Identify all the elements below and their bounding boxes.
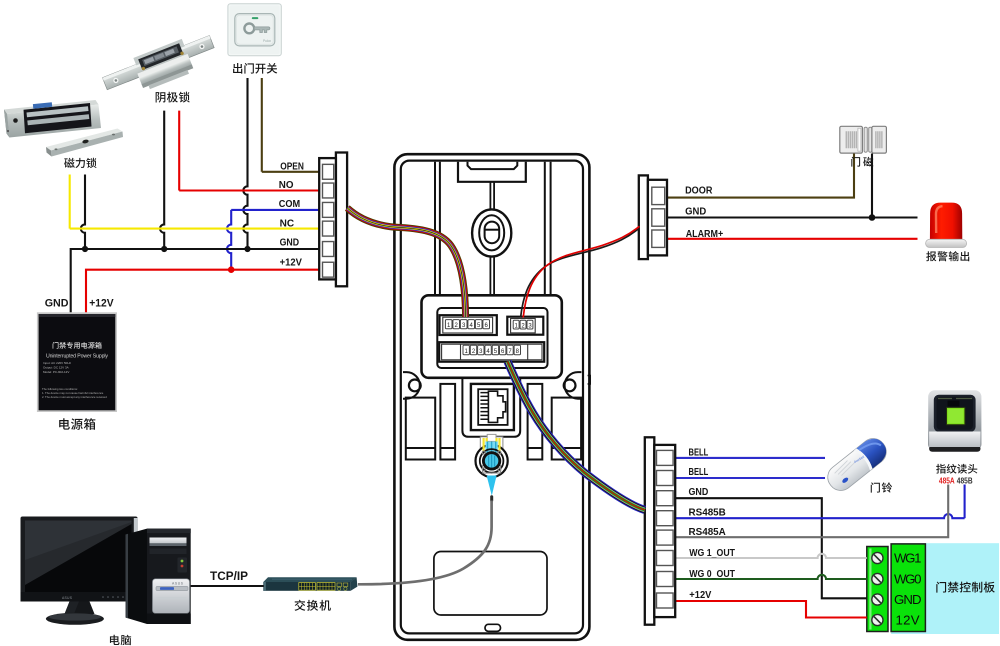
electric strike 阴极锁 (100, 29, 220, 104)
left terminal block body (319, 158, 336, 279)
cable tip (490, 495, 493, 502)
label 门磁 (851, 157, 873, 167)
wire strike black to GND (160, 111, 164, 249)
wire OPEN (262, 171, 320, 173)
wire GND (71, 249, 320, 312)
wire exit button black to GND (243, 78, 247, 249)
svg-text:ALARM+: ALARM+ (686, 229, 724, 240)
right 8-terminal body (654, 445, 675, 617)
maglock body 磁力锁 (4, 100, 101, 138)
computer tower (126, 529, 191, 624)
svg-text:ASUS: ASUS (172, 582, 184, 586)
svg-text:WG0: WG0 (894, 572, 922, 587)
svg-text:DOOR: DOOR (685, 185, 713, 196)
label 交换机 (295, 600, 331, 611)
label 阴极锁 (156, 92, 190, 103)
terminal compartment (422, 295, 562, 378)
svg-text:485A: 485A (939, 475, 955, 485)
svg-text:GND: GND (685, 207, 706, 218)
wire COM vertical to +12V (227, 210, 231, 270)
wire +12V to control board (675, 601, 866, 618)
svg-text:NC: NC (280, 218, 295, 229)
wire GND right-top (667, 154, 918, 218)
panel rib right (545, 162, 551, 296)
left screw boss (403, 372, 421, 399)
wire +12V (86, 270, 320, 313)
6-pin connector J1 (440, 315, 497, 335)
bottom slot (485, 624, 501, 631)
wire GND to control board (675, 498, 866, 598)
harness J3 to 8-terminal block (508, 362, 645, 511)
junction strike GND (161, 246, 167, 252)
maglock armature plate (46, 129, 123, 157)
left terminal block backplate (336, 153, 347, 287)
doorbell 门铃 (823, 433, 892, 495)
svg-text:Input: AC 220V 50Hz: Input: AC 220V 50Hz (43, 361, 72, 365)
svg-text:+12V: +12V (89, 298, 114, 310)
svg-text:NO: NO (279, 180, 294, 191)
light cone (487, 476, 497, 496)
svg-text:Uninterrupted Power Supply: Uninterrupted Power Supply (46, 354, 108, 360)
top mounting tab (458, 162, 526, 182)
label 出门开关 (233, 63, 277, 74)
panel rib left (435, 162, 440, 296)
wire RS485B vertical to 485B (964, 485, 966, 519)
svg-text:WG 1_OUT: WG 1_OUT (689, 548, 735, 559)
wire strike red to NO (178, 111, 180, 191)
svg-text:+12V: +12V (280, 257, 303, 268)
svg-text:RS485A: RS485A (689, 527, 726, 538)
green block terminal names (894, 551, 922, 628)
alarm beacon 报警输出 (926, 203, 967, 248)
svg-text:Model: PC-902-12V: Model: PC-902-12V (43, 370, 69, 374)
label 电脑 (110, 635, 131, 646)
label 指纹读头 (936, 464, 977, 474)
svg-text:+12V: +12V (689, 590, 711, 601)
harness J2 to 3-terminal block (521, 226, 640, 317)
wire RS485B (675, 514, 964, 518)
wire WG 0_OUT (675, 575, 866, 579)
RJ45 frame (462, 378, 520, 437)
wire ALARM+ red (667, 238, 918, 240)
right 3-terminal body (648, 180, 667, 256)
right 8-terminal pins (657, 450, 674, 608)
left terminal block pins (323, 164, 334, 277)
wire NC (70, 228, 320, 230)
right 8-terminal backplate (645, 437, 655, 624)
svg-text:TCP/IP: TCP/IP (210, 569, 248, 583)
svg-text:WG 0_OUT: WG 0_OUT (689, 569, 735, 580)
label 电源箱 (59, 418, 95, 430)
wire exit button olive to OPEN (261, 78, 263, 172)
junction COM +12V (228, 266, 235, 273)
wire maglock yellow to NC (69, 175, 71, 229)
label 报警输出 (926, 251, 969, 261)
svg-text:12V: 12V (896, 613, 920, 628)
right 3-terminal backplate (639, 175, 648, 259)
svg-text:BELL: BELL (689, 448, 709, 459)
wire BELL 2 (675, 477, 825, 479)
side clip (588, 376, 591, 384)
label 门禁控制板 (936, 582, 994, 593)
harness left block to J1 (347, 208, 465, 317)
camera barrel (476, 438, 508, 477)
exit button 出门开关 (228, 4, 281, 56)
svg-text:GND: GND (45, 298, 69, 310)
wire WG 1_OUT (675, 554, 866, 558)
svg-text:BELL: BELL (689, 467, 709, 478)
svg-text:2. The device must accept any: 2. The device must accept any interferen… (42, 395, 107, 399)
keyhole emblem (472, 209, 511, 256)
wire RS485A (675, 485, 948, 538)
svg-text:Pulox: Pulox (263, 39, 271, 43)
svg-text:485B: 485B (957, 475, 973, 485)
svg-text:OPEN: OPEN (280, 161, 304, 172)
access terminal body outline (394, 154, 589, 640)
right screw boss (564, 372, 582, 399)
RJ45 jack (471, 384, 514, 430)
wire COM (231, 209, 319, 211)
power supply box 电源箱 (37, 312, 117, 412)
emblem stem (490, 182, 494, 295)
svg-text:GND: GND (280, 237, 300, 248)
camera plug (yellow pins) (480, 434, 503, 451)
right 3-terminal pins (652, 187, 665, 247)
junction button GND (244, 246, 250, 252)
gray cable to switch (358, 501, 492, 585)
3-pin connector J2 (507, 317, 543, 335)
battery door (434, 552, 547, 616)
wire BELL 1 (675, 457, 825, 459)
green block screws (869, 549, 883, 630)
access control board panel 门禁控制板 (867, 543, 999, 634)
rib slots (406, 384, 581, 460)
svg-text:WG1: WG1 (894, 551, 922, 566)
wire DOOR olive (667, 154, 854, 198)
junction door magnet GND (869, 214, 876, 221)
svg-text:ASUS: ASUS (62, 596, 73, 600)
fingerprint reader 指纹读头 (928, 390, 981, 452)
door magnet 门磁 (840, 126, 887, 153)
8-pin connector J3 (439, 342, 544, 362)
network switch 交换机 (263, 577, 357, 591)
svg-text:Output: DC 12V 3A: Output: DC 12V 3A (43, 366, 69, 370)
svg-text:GND: GND (689, 487, 709, 498)
junction maglock GND (82, 246, 88, 252)
wire maglock black to GND (81, 175, 85, 250)
wire NO (179, 189, 319, 191)
wire TCP/IP (191, 585, 264, 587)
computer monitor 电脑 (21, 517, 138, 625)
svg-text:GND: GND (894, 592, 922, 607)
svg-text:RS485B: RS485B (689, 507, 726, 518)
label 门铃 (871, 482, 892, 492)
label 磁力锁 (64, 158, 96, 168)
svg-text:COM: COM (279, 199, 300, 210)
